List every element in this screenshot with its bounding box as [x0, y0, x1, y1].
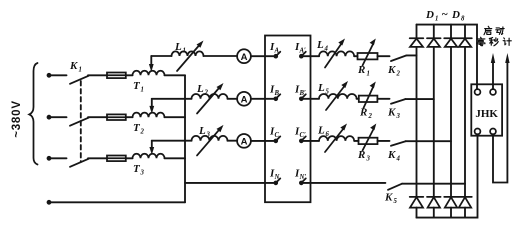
wire tap A line [151, 55, 171, 57]
inductor L4 arrow [325, 44, 342, 68]
wire L5 to R2 [357, 98, 359, 100]
svg-text:1: 1 [367, 71, 370, 78]
resistor R1 arrow [363, 44, 374, 66]
svg-text:L: L [174, 41, 182, 53]
resistor R3 [359, 138, 378, 144]
wire R1 to K2 [378, 55, 390, 57]
inductor L2 [192, 94, 228, 99]
wire JHK to timer arrow 1 [492, 62, 494, 89]
wire top diode bus [417, 25, 478, 89]
terminal IC [274, 139, 279, 144]
variac T2 winding [133, 113, 165, 118]
svg-text:2: 2 [140, 129, 145, 136]
svg-text:1: 1 [183, 48, 186, 55]
relay JHK box [471, 84, 502, 135]
inductor L3 [192, 136, 228, 141]
node phase C supply terminal [47, 156, 52, 161]
wire neutral to IN terminal [185, 182, 274, 184]
svg-text:R: R [357, 64, 365, 76]
svg-text:A: A [241, 94, 248, 105]
switch K1 pole B [70, 118, 89, 126]
resistor R1 [358, 53, 378, 59]
wire neutral bottom [49, 201, 185, 203]
terminal IA' [299, 54, 304, 59]
switch K2 [391, 55, 407, 61]
wire phase A stub [49, 74, 67, 76]
resistor R2 arrow [364, 87, 374, 109]
switch K3 [391, 99, 405, 104]
wire R2 to K3 [377, 98, 389, 100]
label haomiaoji char ji [503, 38, 511, 46]
svg-text:3: 3 [140, 170, 145, 177]
node neutral supply terminal [47, 200, 52, 205]
wire C switch to fuse [88, 157, 107, 159]
terminal IB' [299, 97, 304, 102]
inductor L5 arrow [326, 86, 345, 110]
svg-text:D: D [425, 9, 434, 21]
svg-text:6: 6 [326, 131, 330, 138]
switch K5 [388, 184, 402, 190]
svg-text:8: 8 [461, 16, 465, 23]
svg-text:A′: A′ [299, 48, 307, 55]
svg-text:C′: C′ [300, 132, 307, 139]
wire JHK bottom right to timer arrow 2 [493, 62, 507, 183]
wire L4 to R1 [354, 55, 357, 57]
wire ammeter B to box [251, 98, 274, 100]
wire L2 to ammeter B [228, 98, 238, 100]
wire B switch to fuse [88, 116, 107, 118]
terminal IN' [299, 181, 304, 186]
inductor L4 [319, 51, 354, 56]
wire IN' to K5 [304, 182, 386, 184]
inductor L5 [319, 94, 357, 99]
inductor L2 arrow [197, 88, 219, 114]
svg-text:C: C [275, 132, 280, 139]
wire R3 to K4 [378, 140, 390, 142]
node phase B supply terminal [47, 115, 52, 120]
svg-text:2: 2 [396, 71, 401, 78]
fuse phase B [107, 114, 126, 120]
wire A fuse to T1 [126, 74, 133, 76]
ammeter A phase C [237, 134, 251, 148]
fuse phase A [107, 73, 126, 79]
svg-text:5: 5 [394, 198, 398, 205]
inductor L6 arrow [325, 129, 344, 153]
svg-text:JHK: JHK [475, 108, 498, 120]
wire T1 to star bus [165, 74, 186, 76]
wire IC' to L6 [304, 140, 320, 142]
diode D8 [458, 197, 472, 218]
resistor R3 arrow [363, 129, 374, 151]
variac T1 winding [133, 71, 165, 76]
wire L1 to ammeter A [204, 55, 238, 57]
svg-text:5: 5 [326, 89, 330, 96]
svg-text:L: L [198, 125, 206, 137]
switch K1 pole A [70, 76, 89, 84]
fuse phase C [107, 156, 126, 162]
svg-text:K: K [387, 149, 396, 161]
svg-text:K: K [387, 107, 396, 119]
diode D3 [444, 25, 458, 197]
wire ammeter A to box [251, 55, 274, 57]
wire L3 to ammeter C [228, 140, 238, 142]
svg-text:D: D [451, 9, 460, 21]
wire T2 to star bus [165, 116, 186, 118]
node phase A supply terminal [47, 73, 52, 78]
wire K4 to diode column 3 [406, 140, 451, 142]
svg-text:3: 3 [206, 132, 211, 139]
wire K2 to diode column 1 [407, 54, 417, 56]
wire K3 to diode column 2 [405, 98, 434, 100]
diode D5 [410, 197, 424, 218]
variac T3 tap arrow [151, 141, 153, 148]
terminal IN [274, 181, 279, 186]
terminal box [265, 36, 311, 203]
svg-text:~380V: ~380V [11, 100, 23, 138]
label haomiaoji char miao [489, 38, 498, 46]
label qidong (Chinese: start) char qi [484, 26, 492, 34]
svg-text:4: 4 [324, 46, 329, 53]
wire ammeter C to box [251, 140, 274, 142]
inductor L1 [172, 51, 204, 56]
wire tap B line [152, 98, 192, 100]
switch K1 pole C [70, 159, 89, 167]
wire phase C stub [49, 157, 67, 159]
svg-text:1: 1 [141, 87, 144, 94]
svg-text:~: ~ [442, 9, 449, 21]
svg-text:3: 3 [396, 113, 401, 120]
svg-text:N′: N′ [299, 174, 307, 181]
svg-text:2: 2 [204, 90, 209, 97]
svg-text:1: 1 [79, 67, 82, 74]
svg-text:L: L [196, 83, 204, 95]
svg-text:R: R [359, 107, 367, 119]
wire IA' to L4 [304, 55, 320, 57]
svg-text:B: B [274, 90, 280, 97]
diode D7 [444, 197, 458, 218]
svg-text:A: A [241, 137, 248, 148]
svg-text:L: L [317, 82, 325, 94]
resistor R2 [359, 96, 378, 102]
svg-text:K: K [387, 64, 396, 76]
terminal IA [274, 54, 279, 59]
svg-text:2: 2 [368, 113, 373, 120]
svg-text:K: K [384, 192, 393, 204]
wire T3 to star bus [165, 157, 186, 159]
switch K1 gang link (dashed) [80, 81, 82, 162]
svg-text:K: K [69, 60, 78, 72]
terminal IC' [299, 139, 304, 144]
svg-text:L: L [316, 39, 324, 51]
svg-text:L: L [317, 125, 325, 137]
svg-text:B′: B′ [299, 90, 307, 97]
wire C fuse to T3 [126, 157, 133, 159]
wire L6 to R3 [354, 140, 358, 142]
relay JHK terminals [475, 89, 481, 95]
wire IB' to L5 [304, 98, 320, 100]
wire B fuse to T2 [126, 116, 133, 118]
variac T2 tap arrow [151, 99, 153, 107]
diode D2 [427, 25, 441, 197]
diode D6 [427, 197, 441, 218]
wire tap C line [152, 140, 192, 142]
variac T3 winding [133, 154, 165, 159]
wire star bus vertical [184, 75, 186, 202]
diode D1 [410, 25, 424, 197]
wire bottom diode bus [417, 134, 478, 217]
inductor L1 arrow [177, 46, 199, 72]
brace [29, 63, 37, 165]
label qidong char dong [496, 27, 504, 34]
svg-text:R: R [357, 149, 365, 161]
svg-text:3: 3 [366, 156, 371, 163]
switch K4 [391, 141, 406, 146]
wire A switch to fuse [88, 74, 107, 76]
inductor L6 [319, 136, 354, 141]
svg-text:1: 1 [435, 16, 438, 23]
svg-text:A: A [241, 52, 248, 63]
wire K5 to diode column 4 [402, 183, 465, 185]
label haomiaoji (Chinese: millisecond meter) char hao [477, 37, 485, 46]
ammeter A phase B [237, 92, 251, 106]
inductor L3 arrow [197, 130, 219, 156]
ammeter A phase A [237, 49, 251, 63]
diode D4 [458, 25, 472, 197]
terminal IB [274, 97, 279, 102]
svg-text:A: A [274, 48, 280, 55]
wire phase B stub [49, 116, 67, 118]
variac T1 tap arrow [150, 56, 152, 65]
svg-text:4: 4 [396, 156, 401, 163]
